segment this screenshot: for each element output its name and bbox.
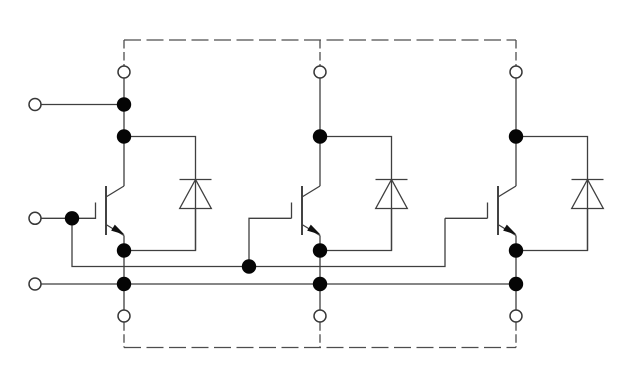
wire, emitter branch 3 vertical: [515, 236, 517, 310]
junction, emitter bus branch 2: [313, 277, 327, 291]
IGBT Q1: [72, 186, 124, 236]
junction, collector-diode branch 1: [117, 129, 131, 143]
terminal N3 (bottom branch 3): [510, 310, 522, 322]
junction, collector-diode branch 2: [313, 129, 327, 143]
dashed lead, terminal N3 to outline: [515, 322, 517, 347]
diode D2: [376, 173, 408, 251]
terminal P1 (top branch 1): [118, 66, 130, 78]
terminal N1 (bottom branch 1): [118, 310, 130, 322]
dashed lead, terminal N2 to outline: [319, 322, 321, 347]
dashed lead, terminal N1 to outline: [123, 322, 125, 347]
terminal G (left, gate): [29, 212, 41, 224]
wire, terminal C to collector node branch 1: [41, 104, 124, 106]
wire, gate bus: [72, 218, 445, 266]
wire, emitter to diode D1: [124, 209, 196, 251]
junction, emitter-diode branch 3: [509, 243, 523, 257]
junction, collector-diode branch 3: [509, 129, 523, 143]
wire, gate of Q3: [445, 217, 488, 219]
diode D3: [572, 173, 604, 251]
dashed lead, outline to terminal P1: [123, 40, 125, 66]
wire, emitter branch 2 vertical: [319, 236, 321, 310]
terminal N2 (bottom branch 2): [314, 310, 326, 322]
junction, emitter bus branch 1: [117, 277, 131, 291]
junction, gate bus tap for Q2: [242, 259, 256, 273]
module outline top edge (dashed): [124, 39, 516, 41]
dashed lead, outline to terminal P3: [515, 40, 517, 66]
wire, collector to diode D1: [124, 137, 196, 174]
junction, collector tap branch 1: [117, 97, 131, 111]
terminal P2 (top branch 2): [314, 66, 326, 78]
wire, gate bus to gate of Q2: [249, 218, 292, 266]
wire, collector branch 1 vertical: [123, 78, 125, 186]
junction, emitter-diode branch 2: [313, 243, 327, 257]
junction, gate terminal node: [65, 211, 79, 225]
terminal E (left, emitter): [29, 278, 41, 290]
junction, emitter-diode branch 1: [117, 243, 131, 257]
wire, terminal G to gate node: [41, 217, 72, 219]
wire, emitter bus (terminal E to all emitters): [41, 283, 516, 285]
wire, emitter branch 1 vertical: [123, 236, 125, 310]
wire, collector to diode D2: [320, 137, 392, 174]
terminal C (left, collector sense): [29, 99, 41, 111]
junction, emitter bus branch 3: [509, 277, 523, 291]
wire, collector to diode D3: [516, 137, 588, 174]
wire, collector branch 2 vertical: [319, 78, 321, 186]
wire, emitter to diode D2: [320, 209, 392, 251]
IGBT Q2: [292, 186, 321, 236]
module outline bottom edge (dashed): [124, 347, 516, 349]
IGBT Q3: [488, 186, 517, 236]
terminal P3 (top branch 3): [510, 66, 522, 78]
wire, emitter to diode D3: [516, 209, 588, 251]
diode D1: [180, 173, 212, 251]
dashed lead, outline to terminal P2: [319, 40, 321, 66]
wire, collector branch 3 vertical: [515, 78, 517, 186]
